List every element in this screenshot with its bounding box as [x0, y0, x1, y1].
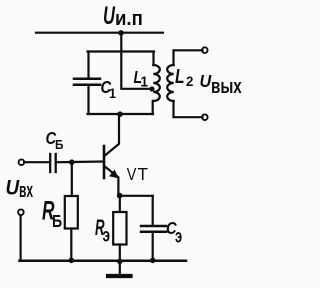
- svg-text:U: U: [103, 3, 115, 30]
- node L1 tap: [149, 86, 154, 91]
- wire input bottom down: [20, 215, 22, 261]
- terminal input top: [19, 159, 25, 165]
- svg-text:V: V: [127, 165, 137, 185]
- wire from rail down to tap: [121, 33, 151, 89]
- node emitter junction: [117, 193, 123, 199]
- wire RЭ bottom lead: [119, 245, 121, 262]
- node CЭ ground junction: [150, 258, 156, 264]
- svg-text:1: 1: [141, 74, 149, 91]
- label RБ: [42, 194, 62, 231]
- wire tank bottom: [88, 113, 154, 115]
- label U output: [200, 71, 242, 97]
- wire ground rail: [20, 260, 187, 263]
- svg-text:U: U: [6, 177, 20, 200]
- node tank bottom junction: [117, 111, 123, 117]
- svg-text:вых: вых: [211, 75, 242, 98]
- ground: [108, 261, 131, 276]
- wire tank top: [88, 50, 155, 52]
- terminal output bottom: [202, 114, 208, 120]
- label U supply: [103, 3, 143, 30]
- svg-text:вх: вх: [19, 180, 34, 202]
- label VT: [127, 164, 148, 185]
- wire emitter with arrow: [105, 166, 119, 195]
- resistor RБ: [65, 196, 78, 229]
- resistor RЭ: [113, 212, 126, 245]
- wire input to base cap: [24, 161, 49, 163]
- label CБ: [46, 129, 64, 152]
- label CЭ: [166, 219, 182, 247]
- node supply tap junction: [118, 30, 124, 36]
- terminal output top: [202, 47, 208, 53]
- label RЭ: [95, 216, 110, 246]
- terminal input bottom: [18, 209, 24, 215]
- wire CЭ top lead: [152, 196, 154, 226]
- svg-text:Б: Б: [52, 213, 62, 232]
- svg-text:T: T: [138, 164, 149, 185]
- svg-text:э: э: [103, 224, 111, 246]
- wire collector: [105, 114, 120, 156]
- node RБ ground junction: [69, 258, 75, 264]
- label U input: [6, 177, 34, 202]
- wire emitter node to CЭ: [120, 195, 153, 197]
- wire CЭ bottom lead: [152, 232, 154, 261]
- wire tank left upper: [87, 52, 89, 79]
- capacitor CЭ: [141, 226, 166, 232]
- label C1: [101, 78, 117, 101]
- svg-text:и.п: и.п: [115, 8, 143, 30]
- label L2: [175, 65, 194, 89]
- wire RБ top lead: [71, 162, 73, 196]
- inductor L2: [167, 50, 202, 117]
- capacitor C1: [74, 79, 100, 85]
- inductor L1: [153, 52, 160, 115]
- svg-text:U: U: [200, 71, 212, 91]
- transistor VT: [103, 146, 106, 178]
- capacitor CБ: [50, 154, 56, 172]
- wire tank left lower: [87, 85, 89, 114]
- wire supply rail: [36, 32, 163, 34]
- wire RБ bottom lead: [70, 229, 72, 262]
- label L1: [134, 67, 149, 90]
- wire RЭ top lead: [119, 196, 121, 212]
- svg-text:2: 2: [186, 74, 194, 89]
- svg-text:1: 1: [109, 85, 117, 101]
- node base junction: [69, 159, 75, 165]
- wire base: [57, 160, 103, 163]
- svg-text:L: L: [175, 65, 185, 87]
- svg-text:э: э: [175, 226, 182, 247]
- svg-text:Б: Б: [55, 137, 64, 152]
- node RЭ ground junction: [117, 259, 123, 265]
